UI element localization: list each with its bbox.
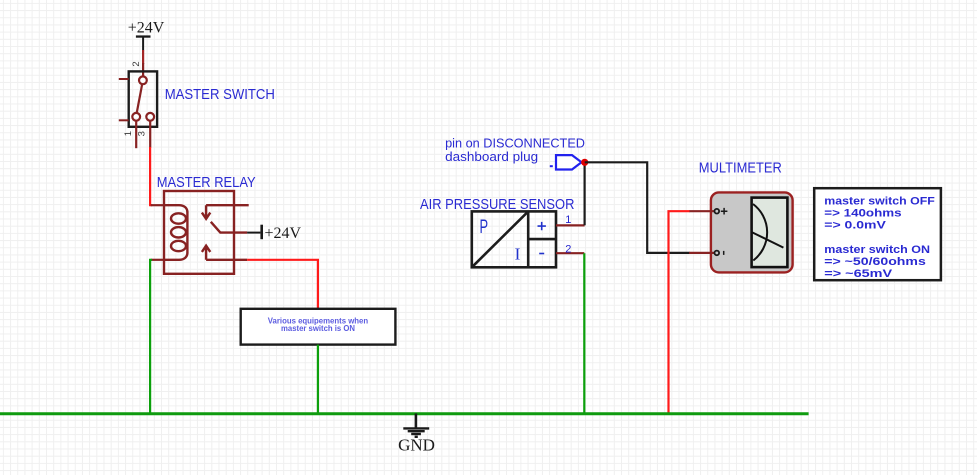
sensor diagonal (472, 211, 528, 267)
multimeter screen (752, 198, 788, 268)
plus terminal label (538, 222, 546, 230)
svg-text:=> 0.0mV: => 0.0mV (824, 220, 887, 232)
ground symbol GND (398, 414, 435, 455)
relay coil top pin stub (151, 204, 164, 206)
pin 2 stub (142, 63, 144, 77)
minus pin stub (689, 252, 714, 254)
plus pin stub (689, 210, 714, 212)
sensor divider horizontal (528, 238, 556, 241)
svg-text:2: 2 (131, 61, 142, 66)
contact circle top (139, 76, 147, 84)
svg-text:3: 3 (137, 131, 148, 136)
wire green relay coil to ground bus (150, 260, 152, 415)
power symbol +24V (top) (128, 20, 165, 51)
relay body box (164, 191, 234, 274)
svg-text:master switch ON: master switch ON (824, 244, 930, 256)
left stub upper (119, 78, 129, 80)
svg-text:dashboard plug: dashboard plug (445, 150, 538, 164)
left stub lower (119, 119, 129, 121)
coil loop 1 (171, 213, 186, 223)
multimeter body (711, 192, 793, 272)
meter needle (752, 232, 784, 248)
svg-text:MASTER SWITCH: MASTER SWITCH (165, 87, 275, 103)
multimeter (689, 192, 793, 272)
svg-text:1: 1 (565, 214, 571, 226)
wire red relay NO contact to equipment box (247, 260, 318, 309)
pin 2 lead (556, 252, 584, 254)
contact circle bottom-left (132, 113, 140, 121)
svg-text:GND: GND (398, 436, 435, 455)
meter scale arc (753, 204, 767, 261)
svg-text:+24V: +24V (265, 225, 302, 242)
connector dashboard plug pin (556, 155, 582, 169)
svg-text:master switch is ON: master switch is ON (281, 324, 355, 333)
pin 3 stub (149, 121, 151, 148)
contact bottom pin line (206, 259, 247, 261)
svg-text:MULTIMETER: MULTIMETER (699, 161, 782, 177)
minus terminal ring (715, 251, 720, 256)
contact down arrow (202, 205, 210, 219)
plus mark (721, 208, 728, 215)
switch body box (129, 71, 157, 126)
pin 1 stub (135, 121, 137, 149)
coil loop 3 (171, 241, 186, 251)
coil entry lead (164, 205, 187, 212)
switch MASTER SWITCH (119, 61, 157, 148)
contact up arrow (202, 246, 210, 260)
relay coil bottom pin stub (151, 259, 164, 261)
svg-text:=> ~50/60ohms: => ~50/60ohms (824, 256, 926, 268)
svg-text:=> ~65mV: => ~65mV (824, 268, 893, 280)
svg-text:2: 2 (565, 243, 571, 255)
pin 1 lead (556, 224, 585, 226)
wire black sensor pin1 up to connector (583, 162, 585, 225)
coil loop 2 (171, 227, 186, 237)
svg-text:=> 140ohms: => 140ohms (824, 207, 901, 219)
svg-text:1: 1 (123, 131, 134, 136)
switch lever (137, 84, 143, 113)
sensor divider vertical (527, 211, 530, 267)
svg-text:P: P (480, 216, 489, 238)
wire black connector to multimeter minus (585, 162, 690, 253)
notes box (814, 188, 941, 280)
wire green equipment box to ground bus (317, 345, 319, 415)
power symbol +24V (relay side) (247, 225, 301, 242)
contact common pin line (top right) (206, 204, 249, 206)
plus terminal ring (715, 209, 720, 214)
ground bus (0, 412, 809, 415)
coil exit lead (164, 253, 187, 260)
wire red multimeter plus to ground bus (669, 211, 690, 415)
minus mark (723, 251, 725, 255)
wire red +24V to switch pin 2 (142, 50, 144, 64)
connector tiny label dot (550, 165, 553, 167)
svg-text:I: I (515, 245, 521, 264)
sensor AIR PRESSURE SENSOR (472, 211, 585, 267)
svg-text:pin on DISCONNECTED: pin on DISCONNECTED (445, 136, 585, 150)
relay MASTER RELAY (164, 191, 249, 274)
box various equipment (241, 309, 396, 345)
junction dot (581, 159, 588, 166)
svg-text:MASTER RELAY: MASTER RELAY (157, 175, 256, 191)
wire green sensor pin2 to ground bus (583, 253, 585, 415)
coil right side (186, 212, 188, 254)
contact circle bottom-right (146, 113, 154, 121)
minus terminal label (539, 253, 544, 255)
wire red switch pin3 to relay coil (150, 147, 152, 205)
contact lever (211, 222, 247, 233)
svg-text:+24V: +24V (128, 20, 165, 37)
svg-text:master switch OFF: master switch OFF (824, 195, 935, 207)
sensor body box (472, 211, 556, 267)
